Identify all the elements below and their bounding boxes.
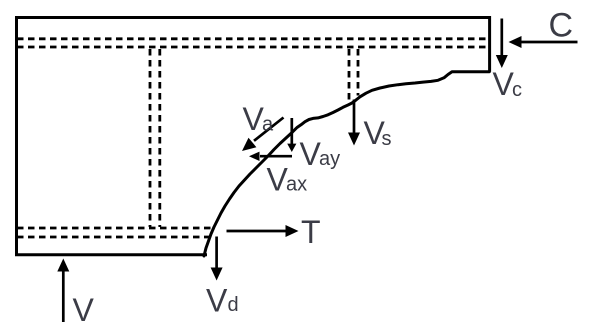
svg-text:c: c	[512, 79, 522, 101]
svg-text:V: V	[206, 283, 228, 319]
svg-text:C: C	[549, 6, 574, 44]
svg-text:T: T	[301, 214, 321, 250]
svg-text:ay: ay	[319, 148, 340, 170]
svg-text:d: d	[228, 294, 239, 316]
svg-text:a: a	[262, 114, 274, 136]
svg-text:ax: ax	[286, 173, 307, 195]
svg-text:V: V	[73, 292, 95, 328]
svg-text:s: s	[382, 128, 392, 150]
